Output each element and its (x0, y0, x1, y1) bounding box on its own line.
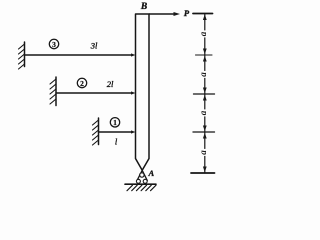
dim label a3 (198, 109, 208, 116)
svg-text:a: a (198, 72, 208, 77)
bar 1 (99, 131, 132, 133)
wire P arrow line (150, 13, 176, 15)
hatching ground (127, 185, 156, 191)
column BA (vertical bar) (136, 14, 150, 170)
arrowhead bar 3 to column (131, 53, 136, 56)
dim arrows segment a3 (203, 95, 207, 101)
dimension line (204, 14, 206, 174)
dimension tick bottom (level A) (191, 172, 215, 174)
dim label a4 (198, 149, 208, 156)
arrowhead of force P (174, 12, 181, 16)
arrowhead bar 2 to column (131, 91, 136, 94)
dim label a2 (198, 71, 208, 78)
svg-text:l: l (115, 137, 118, 147)
hatching wall 2 (50, 79, 56, 104)
svg-text:a: a (198, 110, 208, 115)
wall support 3 (24, 42, 26, 67)
wall support 1 (98, 118, 100, 145)
svg-text:a: a (198, 31, 208, 36)
dimension tick level bar 3 (196, 54, 213, 56)
svg-text:2l: 2l (107, 79, 114, 89)
dimension tick level bar 1 (193, 131, 215, 133)
bar 3 (25, 54, 132, 56)
circle label 1 (110, 118, 119, 127)
svg-text:P: P (184, 8, 190, 18)
dimension tick top (level B) (193, 13, 213, 15)
svg-text:3l: 3l (90, 40, 98, 50)
bar 2 (56, 92, 131, 94)
svg-text:1: 1 (113, 118, 117, 127)
dim arrows segment a1 (203, 14, 207, 20)
dimension tick level bar 2 (194, 93, 215, 95)
wall support 2 (55, 77, 57, 106)
ground line at A (125, 183, 156, 185)
svg-text:A: A (147, 168, 154, 178)
svg-text:a: a (198, 150, 208, 155)
pin circle at A (140, 173, 144, 177)
circle label 3 (49, 39, 58, 48)
dim arrows segment a2 (203, 56, 207, 62)
dim label a1 (198, 30, 208, 37)
hatching wall 3 (19, 44, 25, 69)
dim arrows segment a4 (203, 133, 207, 139)
hatching wall 1 (93, 120, 99, 145)
circle label 2 (77, 78, 86, 87)
roller circles at A base (136, 179, 140, 183)
svg-text:B: B (140, 2, 147, 12)
pin support legs at A (137, 170, 147, 180)
arrowhead bar 1 to column (131, 130, 136, 133)
svg-text:2: 2 (80, 79, 84, 88)
svg-text:3: 3 (52, 40, 56, 49)
